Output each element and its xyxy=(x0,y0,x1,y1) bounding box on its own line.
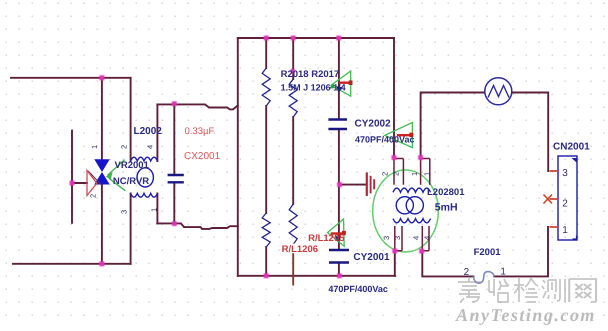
svg-text:NC/RVR: NC/RVR xyxy=(113,176,149,187)
svg-text:1: 1 xyxy=(149,208,158,212)
svg-text:2: 2 xyxy=(381,172,390,176)
svg-text:VR2001: VR2001 xyxy=(115,160,150,171)
svg-text:F2001: F2001 xyxy=(474,247,502,258)
svg-text:3: 3 xyxy=(120,210,129,214)
svg-text:CY2002: CY2002 xyxy=(355,118,392,129)
svg-text:470PF/400Vac: 470PF/400Vac xyxy=(355,135,415,145)
svg-text:CY2001: CY2001 xyxy=(353,252,390,263)
svg-text:L202801: L202801 xyxy=(427,187,465,198)
svg-text:2: 2 xyxy=(120,145,129,149)
svg-text:1.5M J 1206 1/4: 1.5M J 1206 1/4 xyxy=(281,83,346,93)
svg-text:R/L1205: R/L1205 xyxy=(308,233,345,244)
svg-text:4: 4 xyxy=(412,236,421,240)
svg-text:1: 1 xyxy=(562,225,568,236)
svg-text:470PF/400Vac: 470PF/400Vac xyxy=(328,284,388,294)
svg-text:0.33µF: 0.33µF xyxy=(185,126,215,137)
svg-text:2: 2 xyxy=(464,267,470,278)
svg-text:CN2001: CN2001 xyxy=(553,142,590,153)
svg-text:2: 2 xyxy=(562,199,568,210)
svg-text:R2018 R2017: R2018 R2017 xyxy=(281,69,340,80)
svg-text:4: 4 xyxy=(423,236,432,240)
svg-text:2: 2 xyxy=(89,194,98,198)
svg-text:3: 3 xyxy=(382,236,391,240)
svg-text:1: 1 xyxy=(423,172,432,176)
svg-text:3: 3 xyxy=(393,236,402,240)
svg-text:4: 4 xyxy=(145,145,154,149)
svg-text:AnyTesting.com: AnyTesting.com xyxy=(455,305,596,325)
svg-text:1: 1 xyxy=(90,145,99,149)
svg-text:2: 2 xyxy=(392,172,401,176)
svg-text:1: 1 xyxy=(410,172,419,176)
svg-text:3: 3 xyxy=(562,168,568,179)
svg-text:5mH: 5mH xyxy=(435,201,458,213)
svg-text:L2002: L2002 xyxy=(134,126,163,137)
svg-text:1: 1 xyxy=(500,266,506,277)
svg-text:R/L1206: R/L1206 xyxy=(282,244,318,255)
svg-text:CX2001: CX2001 xyxy=(184,151,221,162)
